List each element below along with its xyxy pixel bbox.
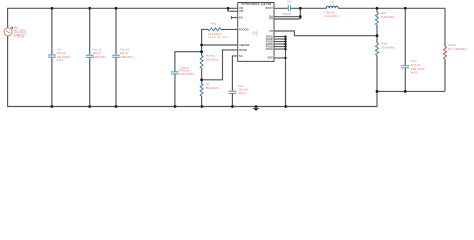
svg-text:BOOT: BOOT [266,6,274,10]
wire node chain [201,45,203,56]
svg-text:4.10 mOhm: 4.10 mOhm [324,14,339,18]
svg-text:4700 pF: 4700 pF [180,69,190,73]
svg-text:Rfbb: Rfbb [381,41,387,45]
svg-text:PH: PH [269,17,273,21]
resistor Rfbt [376,8,378,12]
svg-text:7.30 uH: 7.30 uH [324,11,334,15]
wire PH pins [274,8,300,19]
svg-text:PGND: PGND [266,48,273,51]
resistor Rcomp [200,56,203,69]
wire PGND stubs [274,37,286,58]
svg-text:esr R: esr R [411,71,418,75]
node PH [299,15,302,18]
svg-text:33.0 uF: 33.0 uF [57,51,67,55]
wire Cout branch [404,8,406,91]
wire MODE loop [202,50,238,80]
svg-text:Rcomp: Rcomp [206,53,215,57]
svg-text:Cout: Cout [411,59,417,63]
svg-text:Cin: Cin [57,47,62,51]
svg-text:Chf_in1: Chf_in1 [92,48,102,52]
svg-text:6.3 V: 6.3 V [57,58,64,62]
wire VIN2 drop [228,8,238,11]
svg-text:1/16 W, 1%: 1/16 W, 1% [208,35,229,39]
svg-text:10.0 nF: 10.0 nF [238,88,248,92]
node gnd right [376,90,379,93]
node dots bottom rail [51,105,54,108]
svg-text:R = 2.280 Ohm: R = 2.280 Ohm [448,47,467,51]
svg-text:TPS54062 QFN8: TPS54062 QFN8 [241,2,272,6]
resistor Rfbb [376,36,378,43]
svg-text:100 nF: 100 nF [120,51,129,55]
svg-text:1.000 Ohm: 1.000 Ohm [120,55,134,59]
svg-text:Chf_in2: Chf_in2 [120,48,130,52]
svg-text:2.00 mOhm: 2.00 mOhm [180,72,195,76]
capacitor Cbt [288,5,290,11]
op-amp U1 IC body [238,3,274,62]
svg-text:f = 50 Hz: f = 50 Hz [14,36,25,39]
wire source bottom [8,36,377,107]
capacitor Css [229,91,237,93]
wire ground rail right [377,90,445,92]
svg-text:Css: Css [238,84,243,88]
wire BOOT [274,7,300,9]
inductor L1 [300,7,326,9]
svg-text:U1: U1 [253,31,259,36]
wire SS branch [232,56,237,107]
node FB divider [376,34,379,37]
wire Chf_in1 branch [89,8,91,106]
capacitor Cin [48,55,56,57]
svg-text:EN: EN [239,16,243,20]
resistor Rz [200,84,203,97]
svg-text:VSENSE: VSENSE [239,43,250,47]
svg-text:1.000 Ohm: 1.000 Ohm [92,55,106,59]
wire Cin branch [51,8,53,106]
svg-text:3.81 mOhm: 3.81 mOhm [411,67,426,71]
svg-text:Rpg: Rpg [211,22,217,26]
svg-text:76.8 kOhm: 76.8 kOhm [381,45,395,49]
svg-text:FB: FB [270,29,274,33]
wire FB feedback [274,31,377,36]
capacitor Cout [401,66,409,68]
svg-text:L1: L1 [331,0,335,4]
svg-text:200 kOhm: 200 kOhm [206,58,219,62]
svg-text:GND: GND [267,57,273,60]
svg-text:47.0 uF: 47.0 uF [411,63,421,67]
svg-text:Rload: Rload [448,43,456,47]
svg-text:Rfbt: Rfbt [381,11,386,15]
svg-text:PGOOD: PGOOD [239,27,249,31]
node PGND stub ends [284,35,286,37]
wire VSENSE [202,44,238,46]
wire Chf_in2 branch [115,8,117,106]
wire top rail left [8,8,238,28]
svg-text:SS: SS [239,54,243,58]
svg-text:VIN: VIN [239,9,243,13]
svg-text:50.0 V: 50.0 V [238,91,246,95]
capacitor Chf_in1 [86,55,94,57]
svg-text:MODE: MODE [239,48,247,52]
node dots top rail [51,7,54,10]
svg-text:56.2 kOhm: 56.2 kOhm [206,86,220,90]
svg-text:100 nF: 100 nF [283,12,292,16]
capacitor Ccomp [171,72,179,74]
svg-text:Rz: Rz [206,82,210,86]
capacitor Chf_in2 [112,55,120,57]
wire PGND bus [285,37,287,107]
wire EN stub [232,17,238,19]
svg-text:100 nF: 100 nF [92,51,101,55]
ground [255,105,258,108]
svg-text:8.49 kOhm: 8.49 kOhm [381,15,395,19]
resistor Rload [444,8,446,46]
voltage source V1 [4,28,12,36]
resistor Rpg [221,28,238,30]
svg-text:Cbt: Cbt [287,0,292,4]
wire Ccomp branch [175,52,202,107]
node VSENSE chain [200,44,203,47]
